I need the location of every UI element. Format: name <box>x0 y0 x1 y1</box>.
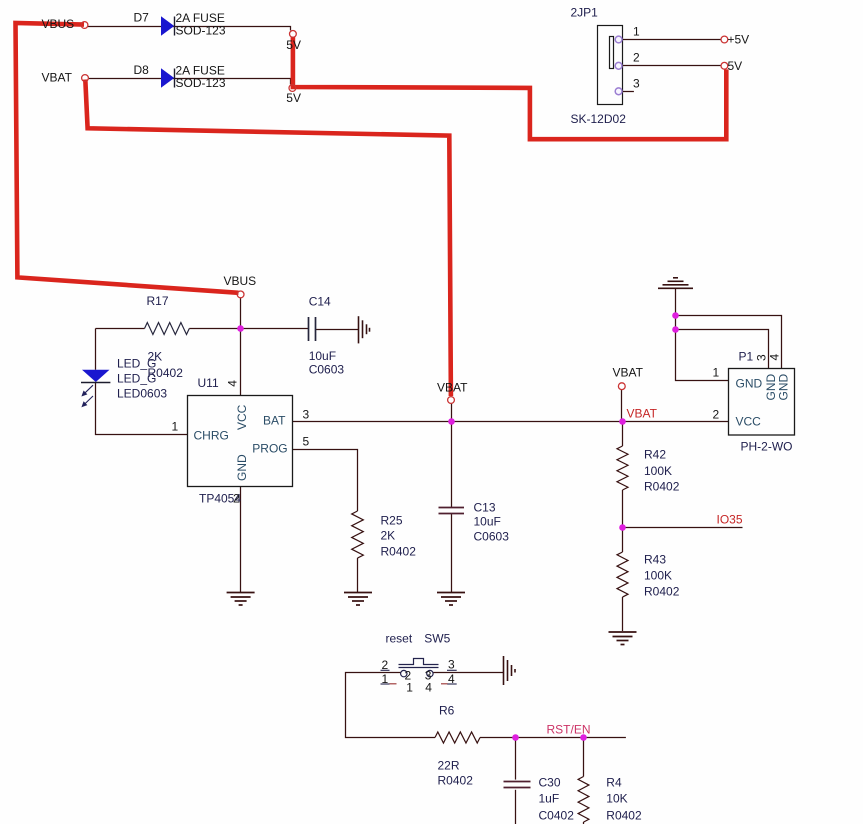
wire LED branch down from R17 <box>95 329 97 370</box>
wire SW5 right lead to ground <box>433 672 503 674</box>
svg-text:R0402: R0402 <box>644 585 680 599</box>
svg-text:CHRG: CHRG <box>194 429 229 443</box>
resistor R17 <box>145 323 190 335</box>
svg-text:VCC: VCC <box>235 404 249 430</box>
pin circle VBAT left <box>82 75 89 82</box>
svg-text:VBUS: VBUS <box>224 274 257 288</box>
svg-text:3: 3 <box>448 658 455 672</box>
wire node to R43 <box>622 528 624 553</box>
2JP1 pin pads <box>615 36 622 95</box>
svg-text:5V: 5V <box>728 59 743 73</box>
svg-text:GND: GND <box>235 454 249 481</box>
pin underline 2 SW5 <box>381 669 390 671</box>
svg-text:SK-12D02: SK-12D02 <box>571 112 627 126</box>
svg-text:P1: P1 <box>739 350 754 364</box>
svg-text:1: 1 <box>406 681 413 695</box>
svg-text:2JP1: 2JP1 <box>571 6 599 20</box>
svg-text:C0603: C0603 <box>474 530 510 544</box>
wire VBAT to R42 <box>622 422 624 447</box>
svg-text:R42: R42 <box>644 448 666 462</box>
wire C13 to ground <box>451 514 453 592</box>
svg-text:22R: 22R <box>438 759 460 773</box>
svg-text:C0402: C0402 <box>539 809 575 823</box>
svg-text:1: 1 <box>713 366 720 380</box>
junction node VBUS/R17/C14 <box>237 325 244 332</box>
svg-text:R4: R4 <box>606 775 622 789</box>
svg-text:C0603: C0603 <box>309 363 345 377</box>
svg-text:R0402: R0402 <box>438 774 474 788</box>
thick red wire 5V net <box>293 37 726 140</box>
svg-text:SOD-123: SOD-123 <box>176 24 226 38</box>
wire PROG pin5 to R25 <box>293 450 358 512</box>
resistor R6 <box>435 732 480 743</box>
wire JP1 pin1 to +5V <box>623 39 721 41</box>
ground under R25 <box>344 593 372 606</box>
junction node VBAT at C13 <box>448 418 455 425</box>
ground at C14 (right-facing) <box>359 316 370 343</box>
wire C14 to ground <box>316 329 359 331</box>
pin circle VBAT node mid <box>448 397 455 404</box>
svg-text:+5V: +5V <box>728 33 750 47</box>
svg-text:4: 4 <box>226 380 240 387</box>
wire R17 left lead <box>96 328 145 330</box>
pin circle +5V right <box>721 36 728 43</box>
pin circle 5V row1 <box>290 31 297 38</box>
svg-text:IO35: IO35 <box>717 513 743 527</box>
pin underline 1 SW5 <box>381 683 390 685</box>
svg-text:VBUS: VBUS <box>42 17 75 31</box>
wire JP1 pin3 stub <box>623 91 634 93</box>
wire VBAT pin stub left <box>451 404 453 422</box>
wire node to R4 <box>583 738 585 777</box>
svg-text:R25: R25 <box>381 514 403 528</box>
wire JP1 pin2 to 5V <box>623 65 721 67</box>
junction RST/EN at R4 <box>580 734 587 741</box>
IC U11 box <box>188 396 293 487</box>
svg-text:10K: 10K <box>606 792 627 806</box>
svg-text:VCC: VCC <box>736 415 762 429</box>
wire R43 to ground <box>622 597 624 631</box>
wire VBUS to D7 row <box>88 27 291 31</box>
connector 2JP1 box <box>598 26 623 105</box>
svg-text:2: 2 <box>713 408 720 422</box>
svg-text:LED_G: LED_G <box>117 372 156 386</box>
wire gnd branch to P1 pin4 <box>676 316 782 369</box>
svg-text:PROG: PROG <box>252 442 287 456</box>
earth ground above P1 <box>658 278 693 289</box>
svg-text:VBAT: VBAT <box>437 381 468 395</box>
ground under U11 <box>227 593 255 606</box>
pin circle VBUS top <box>81 22 88 29</box>
wire earth to P1 pin1 <box>676 289 729 381</box>
wire VBAT pin stub right <box>621 390 623 422</box>
svg-text:U11: U11 <box>198 376 219 390</box>
wire C13 top <box>451 422 453 508</box>
svg-text:GND: GND <box>736 377 763 391</box>
junction node IO35 <box>619 524 626 531</box>
resistor R4 <box>578 777 589 823</box>
svg-text:3: 3 <box>425 669 432 683</box>
capacitor C14 <box>309 317 316 341</box>
svg-text:PH-2-WO: PH-2-WO <box>741 440 793 454</box>
junction gnd branch pin4 <box>672 312 679 319</box>
wire node to C30 <box>515 738 517 780</box>
diode D8 <box>161 68 175 88</box>
resistor R25 <box>352 511 364 558</box>
pin circle 5V row2 <box>289 85 296 92</box>
wire gnd branch to P1 pin3 <box>676 330 769 369</box>
thick red wire VBAT net <box>85 80 451 397</box>
svg-text:100K: 100K <box>644 569 672 583</box>
svg-text:C13: C13 <box>474 501 496 515</box>
svg-text:C14: C14 <box>309 295 331 309</box>
svg-text:10uF: 10uF <box>309 349 336 363</box>
svg-text:5: 5 <box>303 435 310 449</box>
svg-text:3: 3 <box>633 77 640 91</box>
svg-text:2: 2 <box>633 51 640 65</box>
ground right of SW5 <box>504 656 516 685</box>
svg-text:R0402: R0402 <box>381 545 417 559</box>
wire VBUS node vertical to U11 pin4 <box>240 298 242 396</box>
ground under R43 <box>609 632 637 645</box>
svg-text:1: 1 <box>633 25 640 39</box>
wire R17 right lead to node <box>189 328 308 330</box>
svg-text:R43: R43 <box>644 553 666 567</box>
resistor R42 <box>617 446 628 490</box>
svg-text:VBAT: VBAT <box>613 366 644 380</box>
diode D7 <box>161 16 175 36</box>
svg-text:2: 2 <box>405 669 412 683</box>
svg-text:3: 3 <box>303 408 310 422</box>
capacitor C30 <box>504 782 531 788</box>
svg-text:2K: 2K <box>381 529 396 543</box>
wire BAT pin3 to P1 VCC pin2 main VBAT rail <box>293 421 729 423</box>
svg-text:4: 4 <box>768 354 782 361</box>
wire C30 bottom <box>515 790 517 824</box>
svg-text:2: 2 <box>233 492 240 506</box>
svg-text:VBAT: VBAT <box>42 71 73 85</box>
wire R25 to ground <box>357 558 359 592</box>
ground under C13 <box>437 593 465 606</box>
wire R4 bottom stub <box>583 822 585 824</box>
wire U11 GND pin2 to ground <box>240 487 242 592</box>
svg-text:SW5: SW5 <box>424 632 450 646</box>
svg-text:LED_G: LED_G <box>117 357 156 371</box>
svg-text:R0402: R0402 <box>606 809 642 823</box>
junction RST/EN at C30 <box>512 734 519 741</box>
svg-text:10uF: 10uF <box>474 515 501 529</box>
svg-text:RST/EN: RST/EN <box>547 723 591 737</box>
svg-text:1uF: 1uF <box>539 792 560 806</box>
svg-text:VBAT: VBAT <box>627 407 658 421</box>
wire VBAT to D8 row <box>89 79 291 85</box>
pin circle VBUS node <box>237 291 244 298</box>
svg-text:100K: 100K <box>644 464 672 478</box>
svg-text:R0402: R0402 <box>644 480 680 494</box>
svg-text:C30: C30 <box>539 775 561 789</box>
svg-text:3: 3 <box>755 354 769 361</box>
wire IO35 stub <box>623 527 743 529</box>
junction gnd branch pin3 <box>672 326 679 333</box>
svg-text:5V: 5V <box>286 38 301 52</box>
pin circle 5V right <box>721 62 728 69</box>
svg-text:R17: R17 <box>147 294 169 308</box>
thick red wire VBUS net <box>16 23 239 293</box>
svg-text:D7: D7 <box>134 11 150 25</box>
svg-text:D8: D8 <box>134 63 150 77</box>
wire R6 to RST/EN <box>480 737 626 739</box>
svg-text:R6: R6 <box>439 704 455 718</box>
wire R42 to IO35 node <box>622 490 624 528</box>
switch SW5 <box>399 659 439 677</box>
wire SW5 left lead <box>346 673 436 738</box>
pin stub SW5 pin1 <box>390 683 397 685</box>
capacitor C13 <box>439 508 465 514</box>
junction node VBAT at R42 <box>619 418 626 425</box>
svg-text:4: 4 <box>425 681 432 695</box>
svg-text:BAT: BAT <box>263 414 286 428</box>
svg-text:LED0603: LED0603 <box>117 387 167 401</box>
svg-text:1: 1 <box>172 420 179 434</box>
resistor R43 <box>617 552 628 597</box>
LED LED_G <box>81 370 110 407</box>
svg-text:5V: 5V <box>286 91 301 105</box>
pin stub SW5 pin4 <box>441 683 448 685</box>
svg-text:reset: reset <box>386 632 413 646</box>
connector P1 box <box>729 369 795 436</box>
svg-text:SOD-123: SOD-123 <box>176 76 226 90</box>
pin circle VBAT node right <box>618 383 625 390</box>
wire LED cathode down and to CHRG pin1 <box>96 382 188 434</box>
svg-text:GND: GND <box>776 374 790 401</box>
pin underline 3 SW5 <box>447 669 457 671</box>
pin underline 4 SW5 <box>447 683 457 685</box>
